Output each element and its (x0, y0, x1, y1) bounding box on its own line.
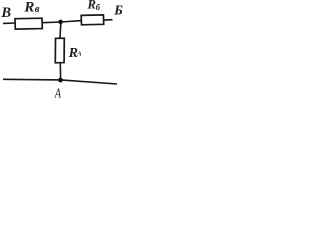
svg-text:R: R (87, 0, 96, 12)
svg-text:В: В (0, 5, 11, 21)
node junction dot top (58, 20, 63, 25)
wire left stub B to resistor Rв (3, 22, 15, 24)
resistor Rв body (15, 18, 42, 29)
svg-text:R: R (23, 0, 34, 16)
wire bottom left (3, 78, 61, 81)
wire vertical from RA to node A (59, 63, 61, 80)
svg-text:б: б (96, 2, 101, 12)
resistor RA body (55, 38, 64, 63)
svg-text:в: в (35, 4, 40, 15)
wire from node to Rб (61, 21, 82, 22)
svg-text:А: А (54, 85, 62, 101)
svg-text:А: А (76, 51, 82, 58)
wire bottom right (61, 80, 117, 84)
wire from Rв to node (42, 21, 61, 24)
node A junction dot bottom (58, 78, 63, 83)
wire vertical from node to RA (60, 22, 61, 38)
resistor Rб body (81, 15, 104, 25)
svg-text:Б: Б (113, 3, 123, 18)
wire right stub Rб to Б (103, 19, 113, 21)
